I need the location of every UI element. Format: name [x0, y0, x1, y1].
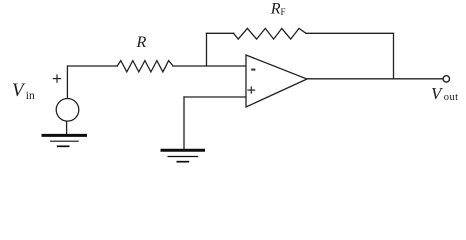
- wire from R to op-amp inverting input: [173, 65, 245, 67]
- wire feedback top left: [207, 32, 234, 34]
- wire output: [307, 78, 443, 80]
- output terminal node: [443, 76, 449, 82]
- wire input top from source to resistor R: [67, 66, 117, 99]
- svg-text:out: out: [444, 92, 459, 103]
- svg-text:F: F: [281, 7, 286, 17]
- op-amp plus label: [247, 86, 255, 93]
- wire from source bottom to ground: [66, 121, 68, 135]
- svg-text:R: R: [136, 34, 147, 51]
- op-amp U1: [246, 55, 307, 107]
- svg-text:V: V: [431, 84, 444, 103]
- wire to ground from non-inverting input: [183, 97, 185, 150]
- svg-text:V: V: [12, 80, 26, 101]
- resistor R: [117, 61, 173, 72]
- svg-text:R: R: [270, 0, 281, 17]
- wire non-inverting input: [184, 96, 246, 98]
- ground under source: [42, 135, 88, 146]
- op-amp minus label: [251, 69, 255, 71]
- wire feedback riser at node: [206, 33, 208, 66]
- svg-text:in: in: [26, 90, 35, 102]
- voltage source Vin: [56, 99, 79, 122]
- resistor RF: [234, 28, 306, 39]
- ground at non-inverting input: [161, 150, 206, 162]
- plus sign of source: [53, 74, 61, 82]
- wire feedback top right and drop to output: [306, 33, 394, 79]
